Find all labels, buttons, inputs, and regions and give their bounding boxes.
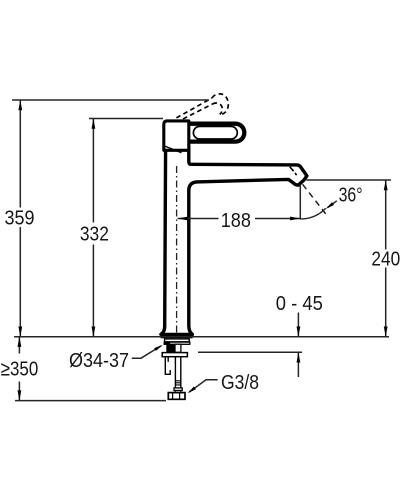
dimension 0-45 arrows — [297, 313, 299, 378]
wire: counter underside line — [198, 351, 302, 353]
svg-text:≥350: ≥350 — [1, 358, 39, 381]
wire: 332 extension line (handle top ref) — [89, 118, 163, 120]
dimension 359 line — [19, 100, 21, 337]
leader 36 deg — [328, 201, 337, 208]
wire: mounting surface line — [14, 336, 389, 338]
svg-text:359: 359 — [5, 207, 35, 230]
leader diameter 34-37 — [132, 346, 161, 358]
handle loop slot — [193, 126, 237, 139]
wire: swivel arc — [300, 208, 326, 219]
svg-text:332: 332 — [80, 222, 109, 245]
locknut — [162, 353, 187, 357]
clamp bracket — [165, 357, 170, 374]
svg-text:Ø34-37: Ø34-37 — [69, 349, 129, 372]
shank section (black) — [175, 344, 181, 352]
wire: bottom clearance line — [15, 400, 166, 402]
base gasket band — [164, 342, 190, 344]
leader G3/8 — [189, 380, 217, 392]
handle block chamfer line — [164, 146, 181, 153]
wire: top extension line (handle raised height ref) — [12, 99, 209, 101]
wire: spout tip drop line — [299, 185, 301, 220]
rod collar — [174, 388, 182, 391]
thread ticks — [175, 381, 180, 385]
svg-text:0 - 45: 0 - 45 — [276, 292, 323, 315]
base bottom band — [161, 335, 193, 339]
dimension 188 line — [178, 218, 301, 220]
faucet body and spout silhouette — [161, 146, 307, 334]
svg-text:G3/8: G3/8 — [221, 371, 259, 394]
dimension 332 line — [92, 119, 94, 337]
svg-text:36°: 36° — [339, 183, 363, 206]
centerline of body (dash-dot) — [176, 166, 178, 334]
svg-text:240: 240 — [371, 248, 400, 271]
handle block — [164, 121, 189, 150]
aerator line in spout tip — [290, 167, 297, 175]
handle loop ring — [189, 124, 245, 142]
handle raised dashed outline — [176, 94, 228, 119]
dimension 240 line — [385, 180, 387, 337]
dimension >=350 arrows — [18, 337, 20, 401]
svg-text:188: 188 — [221, 209, 251, 232]
wire: spout outlet extension line — [306, 179, 391, 181]
threaded rod — [175, 357, 180, 392]
hex nut G3/8 — [168, 393, 185, 400]
base washer — [165, 339, 190, 342]
wire: swivel dashed line 36 deg — [303, 184, 327, 214]
